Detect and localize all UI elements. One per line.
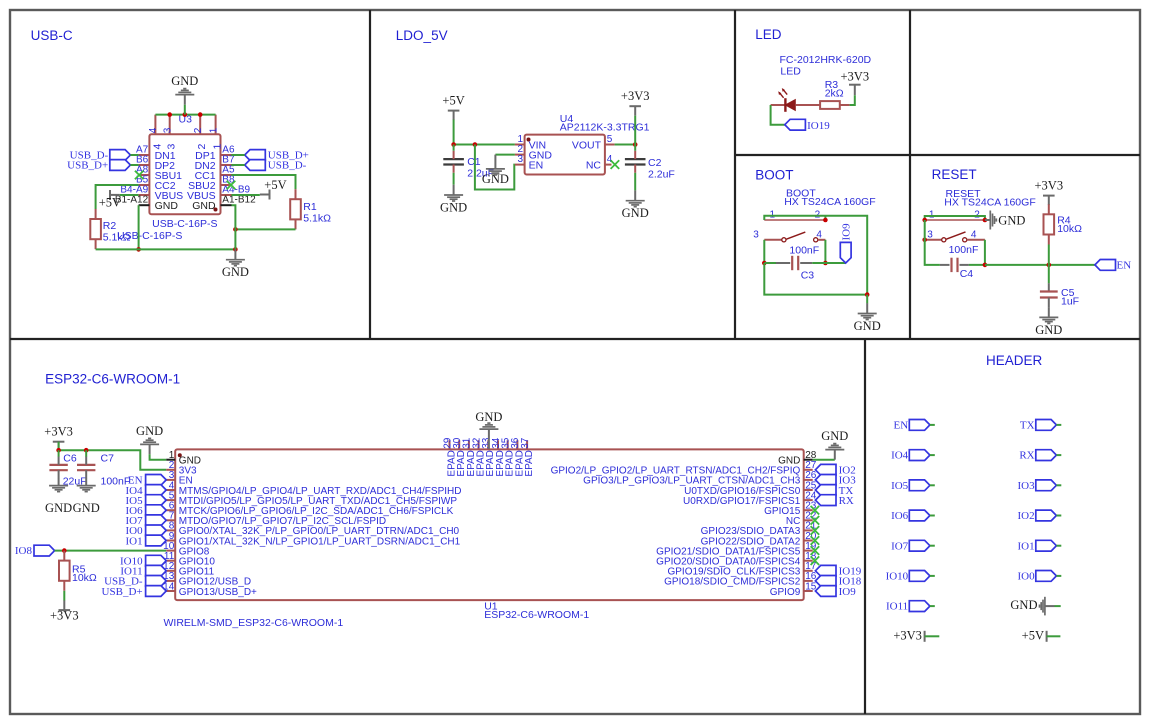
module U1 body bbox=[175, 449, 804, 600]
junction VOUT bbox=[633, 142, 638, 147]
section divider horizontal LED|BOOT bbox=[735, 154, 1140, 156]
svg-text:3: 3 bbox=[517, 154, 523, 165]
U4 pin 3 EN bbox=[515, 164, 525, 166]
U1 left pin 14 GPIO13/USB_D+ bbox=[166, 590, 175, 592]
U1 right pin 17 GPIO19/SDIO_CLK/FSPICS3 bbox=[804, 570, 813, 572]
svg-text:2: 2 bbox=[974, 209, 980, 220]
junction C3 left bbox=[762, 261, 767, 266]
svg-text:1: 1 bbox=[929, 209, 935, 220]
label EN bbox=[1095, 260, 1116, 271]
svg-text:TX: TX bbox=[1020, 420, 1035, 432]
SW2 pin4 lead bbox=[967, 239, 985, 241]
no-connect X U1 pin 23 bbox=[811, 506, 820, 515]
svg-text:GND: GND bbox=[475, 410, 502, 424]
svg-text:GPIO1/XTAL_32K_N/LP_GPIO1/LP_U: GPIO1/XTAL_32K_N/LP_GPIO1/LP_UART_DSRN/A… bbox=[179, 536, 461, 547]
svg-text:4: 4 bbox=[151, 144, 163, 150]
no-connect X U1 pin 20 bbox=[811, 536, 820, 545]
capacitor C1 bbox=[453, 145, 455, 151]
junction GND rail left bbox=[136, 247, 141, 252]
U4 pin 1 VIN bbox=[515, 144, 525, 146]
wire GND pin2 to symbol bbox=[495, 154, 515, 156]
svg-text:GND: GND bbox=[136, 424, 163, 438]
U1 right pin 16 GPIO18/SDIO_CMD/FSPICS2 bbox=[804, 580, 813, 582]
no-connect X pin 4 bbox=[611, 160, 620, 169]
label IO2 at U1 pin 27 bbox=[815, 464, 836, 475]
svg-text:IO0: IO0 bbox=[1017, 571, 1035, 583]
svg-text:EN: EN bbox=[1117, 260, 1132, 272]
capacitor C3 bbox=[764, 262, 776, 264]
svg-text:GND: GND bbox=[171, 74, 198, 88]
svg-text:USB_D+: USB_D+ bbox=[102, 586, 143, 598]
svg-text:USB_D-: USB_D- bbox=[268, 160, 307, 172]
svg-text:GND: GND bbox=[1010, 598, 1037, 612]
label IO11 at U1 pin 12 bbox=[146, 565, 167, 576]
U1 right pin 28 GND bbox=[804, 459, 813, 461]
svg-text:IO11: IO11 bbox=[886, 601, 908, 613]
U1 right pin 25 U0TXD/GPIO16/FSPICS0 bbox=[804, 489, 813, 491]
svg-text:IO6: IO6 bbox=[891, 510, 909, 522]
section divider vertical LDO_5V|LED bbox=[734, 10, 736, 339]
svg-text:C7: C7 bbox=[101, 452, 115, 464]
svg-text:IO19: IO19 bbox=[807, 120, 830, 132]
svg-text:C2: C2 bbox=[648, 157, 662, 169]
wire R1 to GND net bbox=[235, 228, 295, 230]
wire R3 to +3V3 bbox=[850, 95, 855, 105]
svg-text:BOOT: BOOT bbox=[755, 168, 793, 183]
power GND pin28 bbox=[834, 450, 836, 460]
svg-text:5.1kΩ: 5.1kΩ bbox=[103, 232, 131, 244]
svg-text:10kΩ: 10kΩ bbox=[72, 572, 97, 584]
U1 right pin 20 GPIO22/SDIO_DATA2 bbox=[804, 540, 813, 542]
svg-text:+5V: +5V bbox=[442, 94, 464, 108]
resistor R3 body bbox=[820, 101, 840, 109]
wire left GND pin down bbox=[138, 205, 140, 249]
resistor R5 bbox=[63, 551, 65, 561]
wire CC1 to R1 bbox=[232, 175, 296, 189]
connector U3 body bbox=[149, 134, 220, 214]
svg-text:HEADER: HEADER bbox=[986, 353, 1043, 368]
U4 anchor dot bbox=[527, 138, 531, 142]
svg-text:IO1: IO1 bbox=[125, 535, 142, 547]
wire B7 to label bbox=[232, 164, 245, 166]
label IO18 at U1 pin 16 bbox=[815, 576, 836, 587]
resistor R4 bbox=[1048, 205, 1050, 214]
power GND under C7 bbox=[77, 485, 96, 487]
power GND BOOT bbox=[866, 303, 868, 313]
svg-text:3: 3 bbox=[753, 229, 759, 240]
svg-text:GND: GND bbox=[155, 200, 179, 212]
wire CC2 to R2 bbox=[96, 185, 139, 209]
wire reset top loop bbox=[925, 216, 985, 220]
svg-text:4: 4 bbox=[607, 154, 613, 165]
svg-text:5: 5 bbox=[607, 134, 613, 145]
junction boot pin2 bbox=[823, 218, 828, 223]
svg-text:USB-C: USB-C bbox=[31, 28, 73, 43]
svg-text:RX: RX bbox=[1019, 450, 1034, 462]
label EN at U1 pin 3 bbox=[146, 475, 167, 486]
svg-text:2: 2 bbox=[196, 144, 208, 150]
wire boot top loop bbox=[764, 216, 867, 295]
wire pin4 down to C4 bbox=[984, 240, 986, 265]
U1 right pin 27 GPIO2/LP_GPIO2/LP_UART_RTSN/ADC1_CH2/FSPIQ bbox=[804, 469, 813, 471]
no-connect X U1 pin 18 bbox=[811, 556, 820, 565]
label IO9 vertical bbox=[840, 242, 851, 263]
power GND under C6 bbox=[49, 485, 68, 487]
wire A7 to label bbox=[130, 154, 138, 156]
no-connect X pin B8 bbox=[227, 181, 236, 190]
capacitor C4 bbox=[940, 264, 950, 266]
wire bottom GND rail bbox=[96, 248, 236, 250]
wire right GND pin down bbox=[232, 205, 236, 249]
power GND reset pin2 bbox=[985, 219, 990, 221]
wire A6 to label bbox=[232, 154, 245, 156]
capacitor C6 bbox=[58, 450, 60, 457]
wire B6 to label bbox=[130, 164, 138, 166]
svg-text:LED: LED bbox=[780, 66, 801, 78]
U3 left pin B4-A9 VBUS bbox=[139, 194, 150, 196]
svg-text:+3V3: +3V3 bbox=[893, 629, 922, 643]
svg-text:GND: GND bbox=[440, 201, 467, 215]
svg-text:R1: R1 bbox=[303, 201, 317, 213]
label IO19 at U1 pin 17 bbox=[815, 565, 836, 576]
U3 top pin 4 bbox=[154, 115, 156, 135]
svg-text:IO10: IO10 bbox=[886, 571, 909, 583]
wire reset left down bbox=[925, 220, 940, 265]
power GND under C1 bbox=[453, 185, 455, 195]
svg-text:4: 4 bbox=[971, 229, 977, 240]
wire +3V3 down bbox=[634, 116, 636, 145]
junction C6 bbox=[56, 448, 61, 453]
svg-text:IO3: IO3 bbox=[1017, 480, 1035, 492]
regulator U4 body bbox=[525, 135, 605, 175]
power GND bottom USB-C bbox=[234, 249, 236, 259]
wire LED anode to R3 bbox=[795, 104, 820, 106]
svg-text:GND: GND bbox=[73, 501, 100, 515]
power GND EPAD bbox=[488, 429, 490, 449]
svg-text:R2: R2 bbox=[103, 220, 117, 232]
capacitor C5 bbox=[1048, 265, 1050, 283]
power +3V3 ESP32 bbox=[53, 441, 65, 443]
junction C1 bbox=[451, 142, 456, 147]
svg-text:GND: GND bbox=[854, 319, 881, 333]
U1 right pin 22 NC bbox=[804, 519, 813, 521]
wire pin4 down bbox=[824, 240, 826, 263]
junction reset pin3 bbox=[922, 238, 927, 243]
wire pin3 down bbox=[763, 240, 765, 263]
U1 left pin 8 GPIO0/XTAL_32K_P/LP_GPIO0/LP_UART_DTRN/ADC1_CH0 bbox=[166, 529, 175, 531]
wire VOUT to +3V3 bbox=[615, 144, 636, 146]
svg-text:LDO_5V: LDO_5V bbox=[396, 28, 448, 43]
section divider horizontal top row bbox=[10, 338, 1140, 340]
junction EN tap bbox=[473, 142, 478, 147]
U1 left pin 11 GPIO10 bbox=[166, 560, 175, 562]
svg-text:+3V3: +3V3 bbox=[50, 608, 79, 622]
capacitor C7 bbox=[85, 450, 87, 457]
svg-text:IO9: IO9 bbox=[840, 223, 852, 241]
U1 right pin 15 GPIO9 bbox=[804, 590, 813, 592]
U1 EPAD pins 29-37 bbox=[449, 440, 451, 449]
svg-text:IO1: IO1 bbox=[1017, 540, 1034, 552]
wire to gnd bbox=[866, 295, 868, 304]
svg-text:HX TS24CA 160GF: HX TS24CA 160GF bbox=[784, 196, 875, 208]
power +3V3 under R5 bbox=[63, 600, 65, 610]
wire +5V down bbox=[453, 120, 455, 145]
power +3V3 RESET bbox=[1043, 195, 1055, 197]
U1 left pin 9 GPIO1/XTAL_32K_N/LP_GPIO1/LP_UART_DSRN/ADC1_CH1 bbox=[166, 540, 175, 542]
svg-text:5.1kΩ: 5.1kΩ bbox=[303, 213, 331, 225]
label IO3 at U1 pin 26 bbox=[815, 475, 836, 486]
wire VBUS right to +5V bbox=[232, 194, 260, 196]
junction top pin3 bbox=[167, 112, 172, 117]
resistor R2 bbox=[95, 209, 97, 219]
svg-text:1uF: 1uF bbox=[1061, 295, 1079, 307]
junction C3 right bbox=[823, 261, 828, 266]
svg-text:USB-C-16P-S: USB-C-16P-S bbox=[152, 218, 217, 230]
no-connect X pin A8 bbox=[135, 171, 144, 180]
svg-text:+5V: +5V bbox=[99, 195, 121, 209]
wire C3 to IO9 bbox=[825, 262, 845, 264]
U3 top pin 2 bbox=[199, 115, 201, 135]
SW1 lever bbox=[786, 232, 805, 239]
power +5V right bbox=[269, 190, 271, 200]
U4 pin 4 NC bbox=[605, 164, 612, 166]
junction reset pin2 bbox=[983, 218, 988, 223]
label IO5 at U1 pin 5 bbox=[146, 495, 167, 506]
label RX at U1 pin 24 bbox=[815, 495, 836, 506]
junction R1 gnd bbox=[233, 227, 238, 232]
section divider vertical LED|empty bbox=[909, 10, 911, 339]
svg-text:VOUT: VOUT bbox=[572, 139, 602, 151]
label IO9 at U1 pin 15 bbox=[815, 586, 836, 597]
U3 right pin A6 DP1 bbox=[221, 154, 232, 156]
capacitor C2 bbox=[634, 145, 636, 151]
U3 anchor dot bbox=[214, 208, 218, 212]
junction R4/C5 bbox=[1047, 263, 1052, 268]
svg-text:GND: GND bbox=[821, 429, 848, 443]
svg-text:1: 1 bbox=[208, 127, 219, 133]
label USB_D+ at U1 pin 14 bbox=[146, 586, 167, 597]
svg-text:IO4: IO4 bbox=[891, 450, 909, 462]
svg-text:RESET: RESET bbox=[932, 167, 977, 182]
U1 left pin 10 GPIO8 bbox=[166, 550, 175, 552]
wire VIN rail bbox=[454, 144, 515, 146]
SW1 pin4 lead bbox=[818, 239, 826, 241]
svg-text:IO7: IO7 bbox=[891, 540, 909, 552]
SW1 tie bar pins 1-2 bbox=[764, 219, 825, 221]
U3 right pin B8 SBU2 bbox=[221, 184, 232, 186]
led emission arrows bbox=[779, 89, 787, 98]
SW2 lever bbox=[946, 232, 965, 239]
wire LED cathode down to IO19 bbox=[771, 105, 785, 125]
power GND under C2 bbox=[634, 190, 636, 200]
U1 left pin 12 GPIO11 bbox=[166, 570, 175, 572]
U4 pin 2 GND bbox=[515, 154, 525, 156]
svg-text:LED: LED bbox=[755, 27, 782, 42]
svg-text:GND: GND bbox=[622, 206, 649, 220]
svg-text:+3V3: +3V3 bbox=[621, 89, 650, 103]
label TX at U1 pin 25 bbox=[815, 485, 836, 496]
junction R5 bbox=[62, 548, 67, 553]
power +5V left bbox=[109, 190, 111, 200]
junction top pin2 bbox=[198, 112, 203, 117]
no-connect X U1 pin 19 bbox=[811, 546, 820, 555]
U1 right pin 21 GPIO23/SDIO_DATA3 bbox=[804, 529, 813, 531]
svg-text:100nF: 100nF bbox=[789, 245, 819, 257]
U1 left pin 3 EN bbox=[166, 479, 175, 481]
no-connect X U1 pin 21 bbox=[811, 526, 820, 535]
svg-text:C3: C3 bbox=[801, 269, 815, 281]
junction GND rail right bbox=[233, 247, 238, 252]
svg-text:GND: GND bbox=[998, 213, 1025, 227]
svg-text:GND: GND bbox=[1035, 323, 1062, 337]
U3 top pin 1 bbox=[215, 115, 217, 135]
wire R4 to EN net bbox=[1048, 245, 1050, 265]
wire EN loop bbox=[475, 145, 515, 190]
svg-text:USB_D+: USB_D+ bbox=[67, 160, 108, 172]
U1 right pin 18 GPIO20/SDIO_DATA0/FSPICS4 bbox=[804, 560, 813, 562]
power GND under C5 bbox=[1048, 307, 1050, 317]
SW2 switch contacts bbox=[925, 239, 942, 241]
svg-text:2: 2 bbox=[193, 127, 204, 133]
U1 left pin 4 MTMS/GPIO4/LP_GPIO4/LP_UART_RXD/ADC1_CH4/FSPIHD bbox=[166, 489, 175, 491]
svg-text:C4: C4 bbox=[960, 268, 974, 280]
svg-text:+5V: +5V bbox=[1022, 629, 1044, 643]
U4 pin 5 VOUT bbox=[605, 144, 615, 146]
label IO1 at U1 pin 9 bbox=[146, 535, 167, 546]
U3 left pin A7 DN1 bbox=[139, 154, 150, 156]
U1 left pin 5 MTDI/GPIO5/LP_GPIO5/LP_UART_TXD/ADC1_CH5/FSPIWP bbox=[166, 499, 175, 501]
wire top GND bus bbox=[155, 114, 215, 116]
wire +3V3 rail bbox=[59, 442, 167, 470]
svg-text:GPIO13/USB_D+: GPIO13/USB_D+ bbox=[179, 587, 257, 598]
wire +5V to VBUS bbox=[120, 194, 139, 196]
label IO7 at U1 pin 7 bbox=[146, 515, 167, 526]
svg-text:2.2uF: 2.2uF bbox=[648, 169, 675, 181]
power +3V3 LDO bbox=[629, 105, 641, 107]
U1 left pin 1 GND bbox=[166, 459, 175, 461]
U1 right pin 26 GPIO3/LP_GPIO3/LP_UART_CTSN/ADC1_CH3 bbox=[804, 479, 813, 481]
svg-text:100nF: 100nF bbox=[949, 244, 979, 256]
led diode D1 bbox=[771, 104, 786, 106]
svg-text:+3V3: +3V3 bbox=[44, 425, 73, 439]
svg-text:EPAD: EPAD bbox=[524, 450, 535, 477]
svg-text:EN: EN bbox=[894, 420, 909, 432]
U1 left pin 6 MTCK/GPIO6/LP_GPIO6/LP_I2C_SDA/ADC1_CH6/FSPICLK bbox=[166, 509, 175, 511]
U3 left pin B5 CC2 bbox=[139, 184, 150, 186]
svg-text:HX TS24CA 160GF: HX TS24CA 160GF bbox=[944, 196, 1035, 208]
junction top GND stem bbox=[183, 112, 188, 117]
svg-text:+3V3: +3V3 bbox=[1035, 179, 1064, 193]
label IO0 at U1 pin 8 bbox=[146, 525, 167, 536]
junction boot gnd bbox=[865, 292, 870, 297]
power GND top of U3 bbox=[184, 95, 186, 105]
wire GND to pin1 bbox=[150, 454, 167, 459]
U1 right pin 24 U0RXD/GPIO17/FSPICS1 bbox=[804, 499, 813, 501]
svg-text:10kΩ: 10kΩ bbox=[1057, 223, 1082, 235]
wire pin28 GND bbox=[813, 459, 835, 461]
svg-text:+3V3: +3V3 bbox=[841, 70, 870, 84]
svg-text:GND: GND bbox=[482, 172, 509, 186]
U1 left pin 13 GPIO12/USB_D bbox=[166, 580, 175, 582]
wire GND stem bbox=[184, 105, 186, 115]
svg-text:IO9: IO9 bbox=[839, 586, 857, 598]
power +3V3 LED bbox=[849, 84, 861, 86]
power GND pin2 bbox=[494, 155, 496, 169]
svg-text:IO8: IO8 bbox=[15, 545, 33, 557]
junction C4 right bbox=[983, 263, 988, 268]
label IO19 bbox=[785, 119, 806, 130]
svg-text:NC: NC bbox=[586, 159, 602, 171]
svg-text:2kΩ: 2kΩ bbox=[825, 88, 844, 100]
svg-text:GND: GND bbox=[192, 200, 216, 212]
svg-text:A1-B12: A1-B12 bbox=[222, 195, 256, 206]
svg-text:IO5: IO5 bbox=[891, 480, 909, 492]
svg-text:4: 4 bbox=[148, 127, 159, 133]
svg-text:+5V: +5V bbox=[264, 178, 286, 192]
svg-text:4: 4 bbox=[816, 229, 822, 240]
U1 anchor dot bbox=[178, 453, 182, 457]
U3 right pin A1-B12 GND bbox=[221, 204, 232, 206]
R3 right lead bbox=[840, 104, 850, 106]
label IO10 at U1 pin 11 bbox=[146, 555, 167, 566]
wire EN net bbox=[985, 264, 1095, 266]
svg-text:RX: RX bbox=[839, 495, 854, 507]
svg-text:3: 3 bbox=[163, 127, 174, 133]
U1 right pin 23 GPIO15 bbox=[804, 509, 813, 511]
wire IO8 to pin 10 bbox=[55, 550, 167, 552]
junction reset pin1 bbox=[922, 218, 927, 223]
svg-text:37: 37 bbox=[520, 437, 531, 449]
svg-text:WIRELM-SMD_ESP32-C6-WROOM-1: WIRELM-SMD_ESP32-C6-WROOM-1 bbox=[164, 617, 344, 629]
SW2 tie bar pins 1-2 bbox=[925, 219, 985, 221]
svg-text:EN: EN bbox=[529, 159, 544, 171]
U1 left pin 2 3V3 bbox=[166, 469, 175, 471]
section divider vertical ESP32|HEADER bbox=[864, 339, 866, 714]
U3 left pin B6 DP2 bbox=[139, 164, 150, 166]
wire boot bottom bbox=[764, 263, 867, 295]
label IO6 at U1 pin 6 bbox=[146, 505, 167, 516]
U3 left pin B1-A12 GND bbox=[139, 204, 150, 206]
svg-text:GND: GND bbox=[222, 265, 249, 279]
U3 top pin 3 bbox=[169, 115, 171, 135]
U1 left pin 7 MTDO/GPIO7/LP_GPIO7/LP_I2C_SCL/FSPID bbox=[166, 519, 175, 521]
svg-text:ESP32-C6-WROOM-1: ESP32-C6-WROOM-1 bbox=[45, 372, 180, 387]
svg-text:3: 3 bbox=[927, 229, 933, 240]
svg-text:FC-2012HRK-620D: FC-2012HRK-620D bbox=[780, 54, 872, 66]
label USB_D- at U1 pin 13 bbox=[146, 576, 167, 587]
power +5V LDO bbox=[448, 110, 460, 112]
label IO4 at U1 pin 4 bbox=[146, 485, 167, 496]
svg-text:ESP32-C6-WROOM-1: ESP32-C6-WROOM-1 bbox=[484, 609, 589, 621]
svg-text:GPIO9: GPIO9 bbox=[770, 587, 801, 598]
svg-text:GND: GND bbox=[45, 501, 72, 515]
U3 right pin B7 DN2 bbox=[221, 164, 232, 166]
wire R5 to +3V3 bbox=[63, 591, 65, 601]
U3 left pin A8 SBU1 bbox=[139, 174, 150, 176]
section divider vertical USB-C|LDO_5V bbox=[369, 10, 371, 339]
resistor R1 bbox=[295, 189, 297, 199]
U1 right pin 19 GPIO21/SDIO_DATA1/FSPICS5 bbox=[804, 550, 813, 552]
no-connect X U1 pin 22 bbox=[811, 516, 820, 525]
U3 right pin A4-B9 VBUS bbox=[221, 194, 232, 196]
svg-text:C6: C6 bbox=[63, 452, 77, 464]
svg-text:3: 3 bbox=[166, 144, 178, 150]
svg-text:IO2: IO2 bbox=[1017, 510, 1034, 522]
SW1 switch contacts bbox=[764, 239, 782, 241]
junction C7 bbox=[84, 448, 89, 453]
U3 right pin A5 CC1 bbox=[221, 174, 232, 176]
